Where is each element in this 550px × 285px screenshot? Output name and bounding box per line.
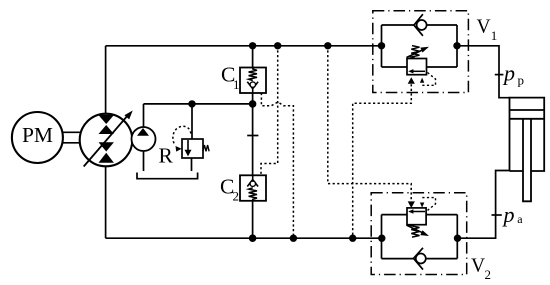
svg-text:p: p [502,202,515,227]
svg-text:1: 1 [491,28,498,43]
svg-text:2: 2 [233,189,240,204]
svg-text:V: V [471,256,485,277]
svg-text:V: V [477,17,491,38]
svg-text:1: 1 [233,77,240,92]
svg-text:a: a [517,212,523,226]
svg-text:PM: PM [22,123,53,147]
svg-text:p: p [518,73,525,88]
svg-text:p: p [502,61,515,86]
svg-text:2: 2 [485,267,492,282]
svg-text:R: R [159,144,174,168]
